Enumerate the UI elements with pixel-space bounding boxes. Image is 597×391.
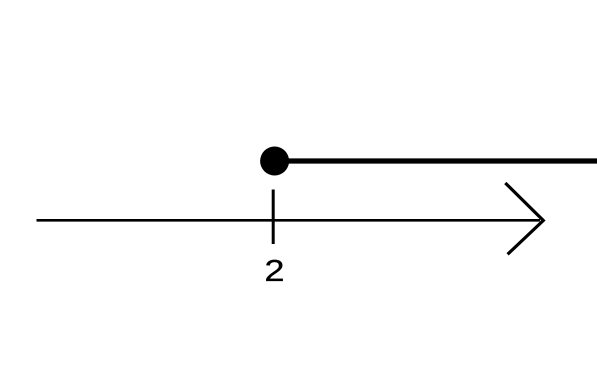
svg-text:2: 2 [264, 254, 284, 289]
